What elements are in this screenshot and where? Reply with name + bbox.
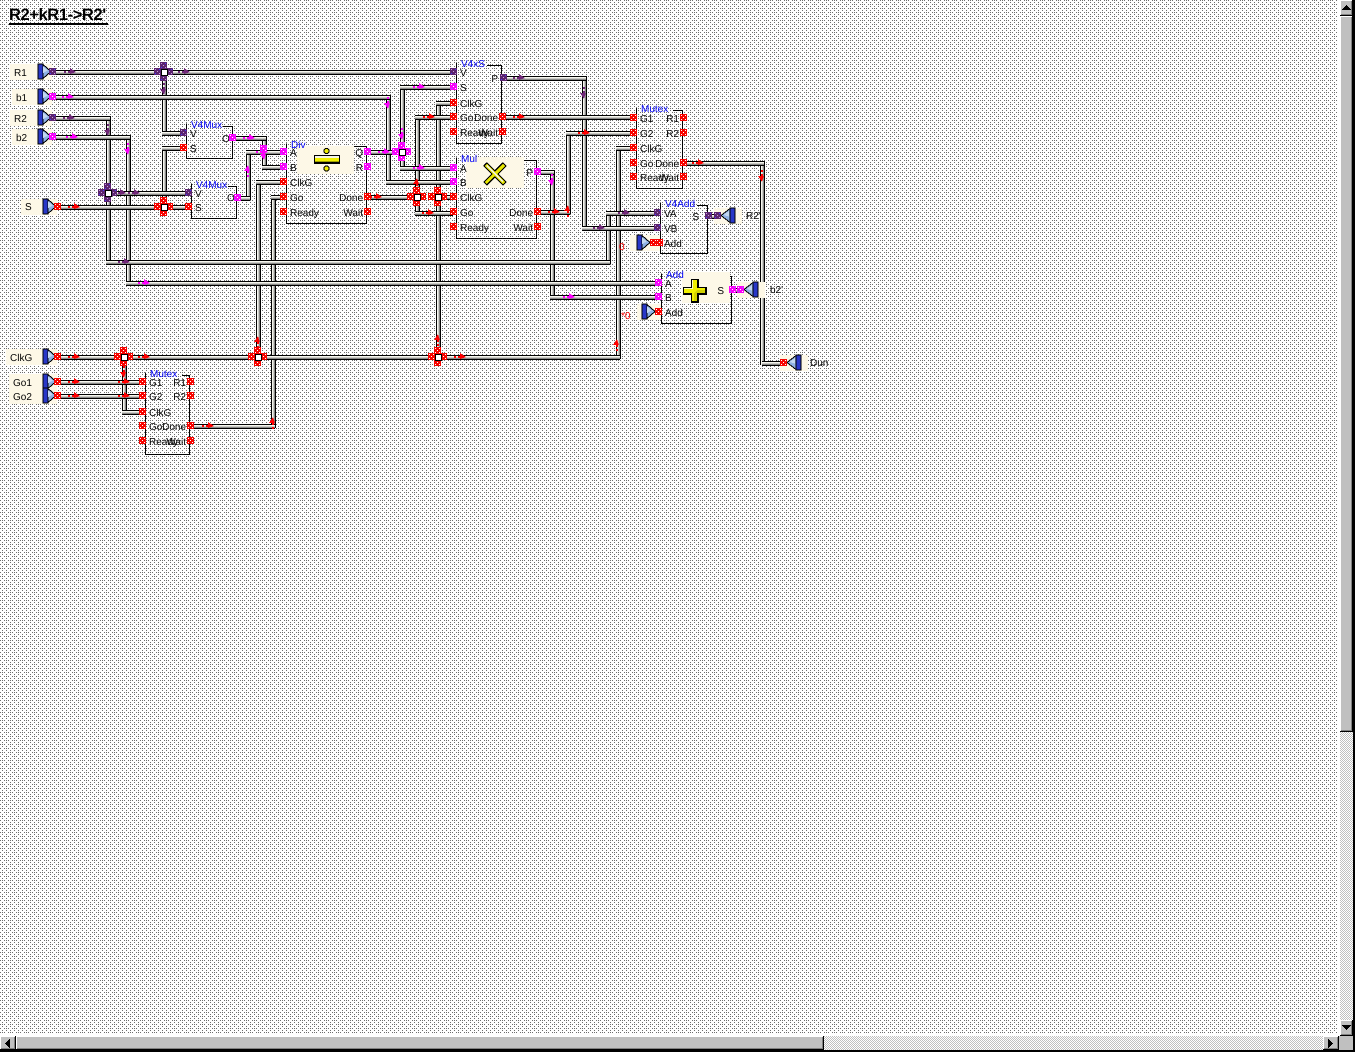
svg-text:R2': R2' [746, 211, 761, 222]
svg-text:ClkG: ClkG [460, 99, 482, 110]
vertical scrollbar thumb [1340, 16, 1353, 732]
pin of port b1 [49, 93, 56, 100]
block Mul [457, 154, 537, 239]
svg-text:Done: Done [339, 193, 363, 204]
wire H15 b1 net to Mul.B [386, 180, 453, 185]
wire V11 ClkG net to Div.ClkG [256, 180, 261, 359]
svg-text:Add: Add [664, 239, 682, 250]
pin 2 of port R2' [705, 212, 712, 219]
wire V1 R1 net down to V4Mux1.V [162, 70, 167, 135]
pin of port S [54, 203, 61, 210]
block Mutex2 [146, 369, 190, 455]
pin G1 of Mutex2 [139, 378, 146, 385]
vertical scrollbar track [1340, 0, 1353, 1036]
svg-text:Ready: Ready [290, 208, 319, 219]
wire H40 Mutex2.Done out [191, 424, 275, 429]
svg-text:b1: b1 [16, 93, 28, 104]
pin Wait of Mutex1 [680, 173, 687, 180]
svg-text:V: V [190, 129, 197, 140]
svg-text:Wait: Wait [478, 128, 498, 139]
svg-text:Done: Done [509, 208, 533, 219]
title R2+kR1->R2' [9, 6, 108, 25]
pin O of V4Mux2 [234, 194, 241, 201]
wire H26 Mul.P out [538, 170, 554, 175]
svg-text:Wait: Wait [659, 173, 679, 184]
pin VA of V4Add [654, 209, 661, 216]
horizontal scrollbar thumb [16, 1036, 824, 1050]
pin Done of Mutex2 [187, 422, 194, 429]
horizontal scrollbar right button [1323, 1036, 1339, 1050]
pin S of Add [729, 286, 736, 293]
pin Done of Mutex1 [680, 159, 687, 166]
svg-text:A: A [460, 164, 467, 175]
wire V10 V4Mux1.O down to Div.B row [262, 136, 267, 169]
junction ClkG at Div drop [248, 347, 267, 366]
pin G1 of Mutex1 [630, 114, 637, 121]
block V4Mux2 [192, 180, 237, 219]
pin ClkG of Mutex2 [139, 408, 146, 415]
wire H5 R1 net to V4Mux1.V [162, 131, 183, 136]
svg-text:R: R [356, 163, 363, 174]
svg-text:VA: VA [664, 209, 677, 220]
pin of port b2' [737, 286, 744, 293]
wire H37 ClkG net to Mutex2.ClkG [122, 410, 142, 415]
wire H16 ClkG net to Div.ClkG [256, 180, 283, 185]
pin S of V4Add [705, 212, 712, 219]
svg-text:G1: G1 [149, 378, 163, 389]
wire V16 Mul.P net down to Add.B row [550, 170, 555, 299]
wire H17 to Div.Go [271, 195, 283, 200]
svg-text:G1: G1 [640, 114, 654, 125]
wire H28 Mul.Done net to Mutex1.G2 [566, 131, 633, 136]
pin Done of V4xS [499, 113, 506, 120]
wire V7 Q net up to V4xS.S [400, 85, 405, 154]
svg-text:Done: Done [655, 159, 679, 170]
pin S of V4Mux2 [185, 203, 192, 210]
wire H10 to Div.B [262, 165, 283, 170]
pin Wait of Div [364, 208, 371, 215]
block V4Add [661, 199, 708, 254]
wire H38 Go1 to Mutex2.G1 [59, 380, 142, 385]
port Go1 [9, 374, 57, 390]
block V4xS [457, 59, 502, 144]
pin R1 of Mutex1 [680, 114, 687, 121]
pin Ready of Mul [450, 223, 457, 230]
port Dun [780, 355, 828, 371]
pin Ready of V4xS [450, 128, 457, 135]
pin P of Mul [534, 168, 541, 175]
junction Q net [392, 142, 411, 161]
wire V21 ClkG net down to Mutex2.ClkG [122, 355, 127, 414]
wire H4 b2 to corner [56, 135, 130, 140]
pin Ready of Mutex2 [139, 437, 146, 444]
svg-text:Go: Go [149, 422, 163, 433]
wire V12 Mutex2.Done up to Div.Go [271, 195, 276, 428]
junction R1 net [154, 62, 173, 81]
svg-text:Go: Go [460, 113, 474, 124]
port Go2 [9, 388, 57, 404]
svg-text:R1: R1 [666, 114, 679, 125]
pin of port b2 [49, 133, 56, 140]
pin R of Div [364, 163, 371, 170]
wire H1 R1 to V4xS.V [56, 70, 453, 75]
svg-text:V: V [195, 189, 202, 200]
pin ClkG of Mul [450, 193, 457, 200]
svg-text:Go1: Go1 [13, 378, 32, 389]
svg-text:*0: *0 [621, 311, 631, 322]
wire H13 Div.Q out [369, 150, 404, 155]
port R2' [714, 208, 761, 224]
pin S of V4xS [450, 83, 457, 90]
svg-text:S: S [717, 286, 724, 297]
pin Q of Div [364, 148, 371, 155]
pin Add of V4Add [654, 239, 661, 246]
svg-text:P: P [491, 74, 498, 85]
pin G2 of Mutex1 [630, 129, 637, 136]
pin B of Add [655, 293, 662, 300]
svg-text:V: V [460, 68, 467, 79]
wire V9 V4Mux2.O up to Div.A row [246, 150, 251, 200]
pin Add of Add [655, 308, 662, 315]
wire H29 ClkG net to Mutex1.ClkG [616, 146, 633, 151]
svg-text:Done: Done [474, 113, 498, 124]
svg-text:Ready: Ready [460, 223, 489, 234]
svg-text:Done: Done [162, 422, 186, 433]
wire H32 V4xS.P net to V4Add.VB [582, 226, 658, 231]
svg-text:S: S [195, 203, 202, 214]
wire H19 Done net to Mul.Go [415, 211, 453, 216]
vertical scrollbar down button [1340, 1020, 1353, 1036]
svg-text:0: 0 [619, 242, 625, 253]
svg-text:A: A [665, 279, 672, 290]
svg-text:O: O [227, 193, 235, 204]
wire V20 Mutex1.Done net down to Dun [760, 161, 765, 365]
port b2 [12, 129, 52, 145]
wire V13 ClkG net to V4xS.ClkG and Mul.ClkG [436, 101, 441, 359]
svg-text:P: P [526, 168, 533, 179]
wire H22 ClkG net to V4xS.ClkG [436, 101, 453, 106]
wire V8 Q net down to Mul.A row [400, 150, 405, 170]
block Div [287, 140, 367, 224]
block V4Mux1 [187, 120, 233, 159]
svg-text:Go: Go [640, 159, 654, 170]
svg-text:Wait: Wait [166, 437, 186, 448]
pin Wait of Mutex2 [187, 437, 194, 444]
svg-text:Go: Go [290, 193, 304, 204]
pin of port R2 [49, 114, 56, 121]
wire direction arrows [62, 68, 764, 429]
wire H9 V4Mux1.O out [233, 136, 266, 141]
pin of port Go1 [54, 378, 61, 385]
horizontal scrollbar left button [0, 1036, 16, 1050]
pin VB of V4Add [654, 224, 661, 231]
svg-text:R2+kR1->R2': R2+kR1->R2' [9, 6, 106, 24]
pin R2 of Mutex1 [680, 129, 687, 136]
svg-text:O: O [222, 134, 230, 145]
pin R2 of Mutex2 [187, 392, 194, 399]
pin O of V4Mux1 [229, 134, 236, 141]
junction R2 net [98, 183, 117, 202]
pin A of Div [280, 148, 287, 155]
block Add [662, 270, 732, 324]
pin A of Mul [450, 164, 457, 171]
port R1 [10, 64, 52, 80]
svg-text:S: S [190, 144, 197, 155]
port ClkG [6, 349, 57, 365]
wire H23 Done net to V4xS.Go [415, 115, 453, 120]
wire H12 to Div.A [246, 150, 283, 155]
pin P of V4xS [500, 74, 507, 81]
svg-text:R1: R1 [173, 378, 186, 389]
port b2' [737, 282, 783, 298]
wire V18 ClkG net up to Mutex1.ClkG [616, 146, 621, 359]
pin of port R1 [49, 68, 56, 75]
wire V17 Mul.Done net up to Mutex1.G2 [566, 131, 571, 214]
pin of port Go2 [54, 392, 61, 399]
svg-text:ClkG: ClkG [290, 178, 312, 189]
svg-text:ClkG: ClkG [10, 353, 32, 364]
pin of port ClkG [54, 353, 61, 360]
pin ClkG of Div [280, 178, 287, 185]
wire H35 Mul.P net to Add.B [550, 295, 658, 300]
pin R1 of Mutex2 [187, 378, 194, 385]
pin Go of Div [280, 193, 287, 200]
svg-text:A: A [290, 148, 297, 159]
svg-text:S: S [692, 212, 699, 223]
svg-text:ClkG: ClkG [460, 193, 482, 204]
wire V3 R2 net down [106, 116, 111, 264]
pin ClkG of Mutex1 [630, 144, 637, 151]
svg-text:ClkG: ClkG [149, 408, 171, 419]
junction ClkG at Mul [428, 187, 447, 206]
svg-text:G2: G2 [149, 392, 163, 403]
pin Wait of Mul [534, 223, 541, 230]
vertical scrollbar up button [1340, 0, 1353, 16]
pin B of Div [280, 163, 287, 170]
pin Wait of V4xS [499, 128, 506, 135]
pin Done of Div [364, 193, 371, 200]
white gap before scrollbars [1338, 0, 1340, 1036]
port S [21, 199, 57, 215]
junction ClkG at Mutex2 drop [114, 347, 133, 366]
pin Go of V4xS [450, 113, 457, 120]
svg-text:B: B [460, 178, 467, 189]
wire H41 to port Dun [762, 361, 784, 366]
svg-text:Add: Add [665, 308, 683, 319]
svg-text:S: S [460, 83, 467, 94]
horizontal scrollbar track [0, 1036, 1339, 1050]
svg-text:S: S [25, 202, 32, 213]
svg-text:b2: b2 [16, 133, 28, 144]
pin Ready of Div [280, 208, 287, 215]
wire H33 R2 net long run [106, 260, 610, 265]
svg-text:R1: R1 [14, 68, 27, 79]
pin Done of Mul [534, 208, 541, 215]
pin of port Dun [780, 359, 787, 366]
svg-text:Dun: Dun [810, 358, 828, 369]
pin of port R2' [714, 212, 721, 219]
pin V of V4Mux2 [185, 189, 192, 196]
pin Go of Mutex2 [139, 422, 146, 429]
port R2 [10, 110, 52, 126]
svg-text:G2: G2 [640, 129, 654, 140]
pin G2 of Mutex2 [139, 392, 146, 399]
pin Go of Mul [450, 208, 457, 215]
svg-text:Wait: Wait [513, 223, 533, 234]
block Mutex1 [637, 104, 683, 189]
pin Go of Mutex1 [630, 159, 637, 166]
wire H36 ClkG bus [59, 355, 620, 360]
scrollbar corner [1339, 1036, 1355, 1050]
wire H7 R2 net to V4Mux2.V [106, 191, 188, 196]
svg-text:R2: R2 [173, 392, 186, 403]
pin B of Mul [450, 178, 457, 185]
wire V6 b1 net down to Mul.B [386, 95, 391, 184]
wire V5 b2 net down [126, 135, 131, 285]
wire H11 V4Mux2.O out [239, 196, 250, 201]
svg-text:Wait: Wait [343, 208, 363, 219]
junction Done net [407, 187, 426, 206]
wire H43 Add.S to port b2' [733, 288, 744, 293]
wire H3 R2 to corner [56, 116, 110, 121]
wire H39 Go2 to Mutex2.G2 [59, 394, 142, 399]
port b1 [12, 89, 52, 105]
svg-text:Go: Go [460, 208, 474, 219]
pin S of V4Mux1 [180, 144, 187, 151]
pin A of Add [655, 279, 662, 286]
stub port to Add.Add [637, 304, 661, 320]
crossing marks at Div inputs [260, 145, 267, 152]
svg-text:Q: Q [355, 148, 363, 159]
wire H14 Q net to Mul.A [400, 166, 453, 171]
wire H30 Mutex1.Done out [684, 161, 764, 166]
wire H31 R2 net to V4Add.VA [606, 211, 658, 216]
wire H21 Q net to V4xS.S [400, 85, 453, 90]
wire H34 b2 net to Add.A [126, 281, 658, 286]
svg-text:R2: R2 [14, 114, 27, 125]
wire H2 b1 to corner [56, 95, 390, 100]
pin V of V4Mux1 [180, 129, 187, 136]
wire H6 V4Mux1.S stub [162, 146, 183, 151]
pin V of V4xS [450, 68, 457, 75]
svg-text:VB: VB [664, 224, 678, 235]
wire V2 S net V4Mux1.S down to S junction [162, 146, 167, 209]
wire V19 R2 net up to V4Add.VA row [606, 211, 611, 264]
wire H25 V4xS.P out [504, 76, 586, 81]
wire H27 Mul.Done out [538, 210, 570, 215]
svg-text:ClkG: ClkG [640, 144, 662, 155]
junction ClkG at V4xS drop [428, 347, 447, 366]
wire V14 Done net V4xS.Go down to Mul.Go row [415, 115, 420, 215]
svg-text:B: B [665, 293, 672, 304]
svg-text:R2: R2 [666, 129, 679, 140]
svg-text:b2': b2' [770, 285, 783, 296]
wire H18 Div.Done out [369, 195, 419, 200]
svg-text:Go2: Go2 [13, 392, 32, 403]
stub port to V4Add.Add [630, 235, 660, 251]
svg-text:B: B [290, 163, 297, 174]
wire V15 V4xS.P net down to V4Add.VB row [582, 76, 587, 230]
wire H20 ClkG net to Mul.ClkG [436, 195, 453, 200]
wire H8 S to V4Mux2.S [59, 205, 188, 210]
wire H24 V4xS.Done to Mutex1.G1 [504, 115, 633, 120]
wire H42 V4Add.S to port R2' [709, 214, 721, 219]
pin Ready of Mutex1 [630, 173, 637, 180]
pin ClkG of V4xS [450, 99, 457, 106]
junction S net [154, 197, 173, 216]
